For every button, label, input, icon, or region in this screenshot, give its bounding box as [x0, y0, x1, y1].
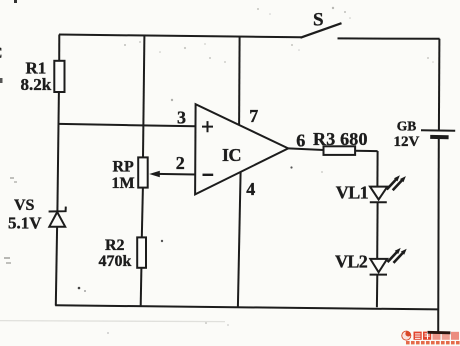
svg-text:7: 7: [249, 106, 258, 126]
svg-text:VL1: VL1: [336, 183, 369, 203]
svg-text:RP: RP: [113, 159, 135, 176]
svg-text:C: C: [0, 45, 3, 62]
svg-text:R3 680: R3 680: [313, 129, 368, 149]
svg-text:12V: 12V: [394, 134, 420, 150]
svg-text:S: S: [313, 10, 324, 31]
svg-text:VS: VS: [14, 197, 35, 214]
svg-text:4: 4: [246, 179, 255, 199]
svg-text:VL2: VL2: [335, 252, 368, 272]
svg-text:IC: IC: [222, 145, 241, 165]
svg-text:GB: GB: [397, 118, 417, 133]
svg-text:3: 3: [177, 108, 186, 128]
svg-text:6: 6: [296, 131, 305, 151]
svg-text:5.1V: 5.1V: [8, 214, 42, 233]
svg-text:2: 2: [176, 153, 185, 173]
svg-text:R2: R2: [105, 237, 125, 254]
svg-text:8.2k: 8.2k: [21, 75, 52, 94]
svg-text:1M: 1M: [112, 175, 135, 192]
svg-text:470k: 470k: [99, 253, 132, 270]
